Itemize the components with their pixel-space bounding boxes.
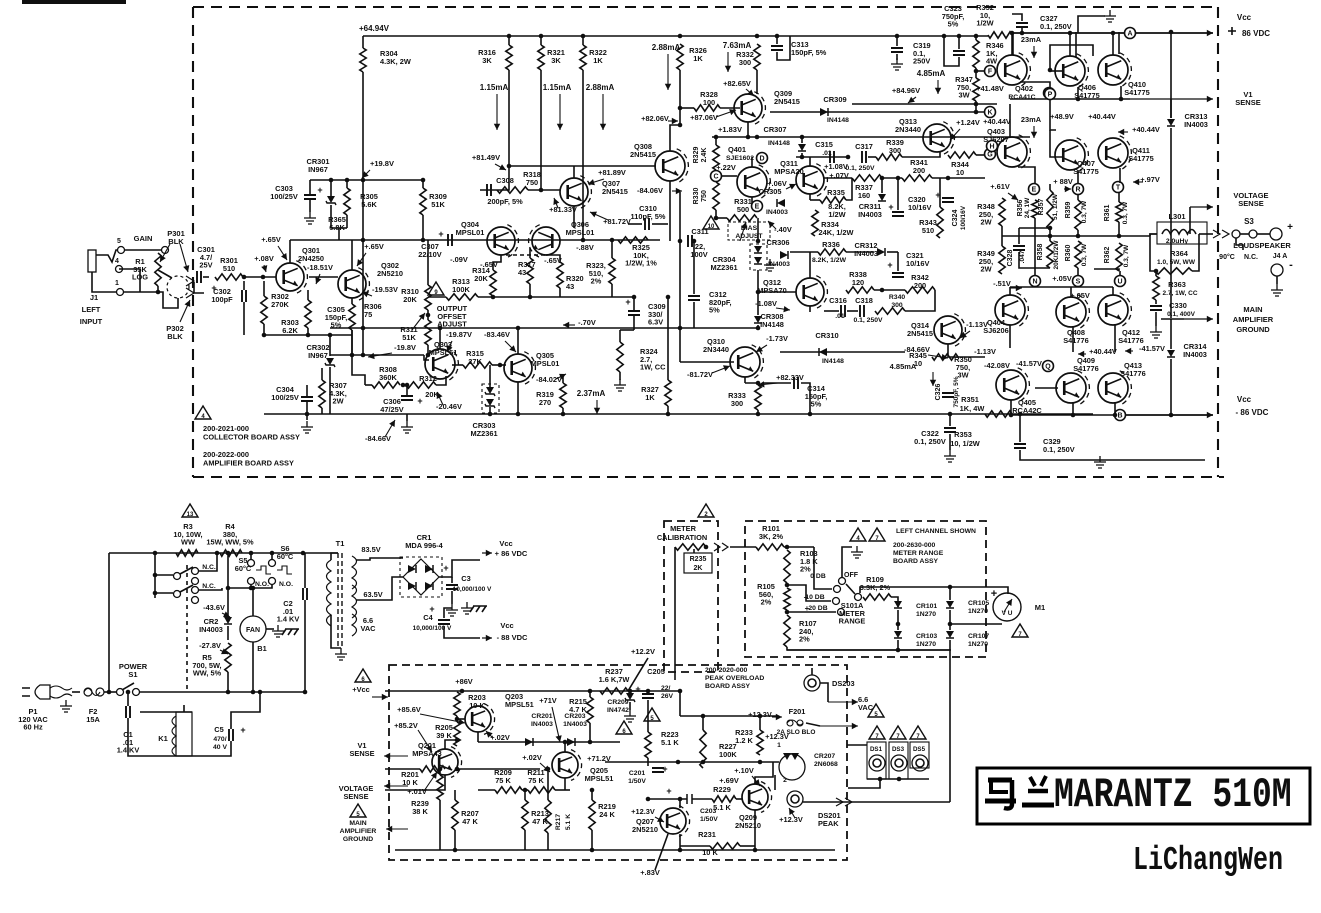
- wire R303 bottom: [307, 328, 309, 335]
- terminal gain: [162, 247, 169, 254]
- inductor L301 box: [1157, 222, 1207, 244]
- junction: [948, 585, 953, 590]
- svg-text:0.3, 7W: 0.3, 7W: [1081, 200, 1088, 223]
- wire CR302 down: [329, 367, 331, 414]
- warning triangle 2: [698, 504, 714, 517]
- arrow v Q309b: [716, 110, 736, 117]
- svg-text:60°C: 60°C: [277, 552, 294, 561]
- wire: [874, 289, 905, 291]
- capacitor C316: [841, 305, 845, 317]
- junction: [226, 690, 231, 695]
- junction: [226, 586, 231, 591]
- svg-text:2N3440: 2N3440: [895, 125, 921, 134]
- svg-text:0.3, 7W: 0.3, 7W: [1122, 201, 1129, 224]
- transistor Q403: [997, 137, 1027, 167]
- wire C304 bottom: [306, 401, 308, 420]
- resistor R363: [1153, 276, 1159, 300]
- label title CJK Lan: [1022, 776, 1054, 805]
- svg-text:C5: C5: [214, 725, 223, 734]
- connector P1 plug: [35, 685, 50, 699]
- wire under C301: [194, 282, 204, 293]
- wire: [154, 553, 156, 598]
- svg-text:N.O.: N.O.: [279, 581, 293, 588]
- svg-text:LiChangWen: LiChangWen: [1133, 841, 1283, 880]
- junction: [460, 689, 465, 694]
- wire CR2 bottom: [227, 626, 229, 640]
- junction: [306, 333, 311, 338]
- arrow pot wiper: [412, 313, 425, 330]
- svg-text:N.C.: N.C.: [202, 564, 216, 571]
- svg-text:SENSE: SENSE: [1238, 199, 1263, 208]
- junction: [846, 155, 851, 160]
- svg-text:38 K: 38 K: [412, 807, 428, 816]
- capacitor C314: [794, 377, 798, 389]
- transistor Q312: [796, 278, 824, 306]
- svg-text:+.05V: +.05V: [1070, 291, 1090, 300]
- svg-text:R358: R358: [1037, 244, 1044, 261]
- junction: [714, 216, 719, 221]
- wire: [1012, 32, 1014, 55]
- svg-text:S41775: S41775: [1124, 88, 1149, 97]
- junction: [539, 188, 544, 193]
- svg-text:IN967: IN967: [308, 165, 328, 174]
- wire R323 top: [611, 240, 613, 258]
- wire C309 top: [633, 297, 635, 311]
- arrow v Q205: [540, 763, 550, 772]
- wire: [506, 254, 547, 256]
- wire: [940, 111, 985, 113]
- wire: [509, 165, 656, 167]
- warning triangle 5: [868, 704, 884, 717]
- svg-text:C316: C316: [829, 296, 847, 305]
- resistor R217: [545, 800, 551, 833]
- svg-text:5.1 K: 5.1 K: [565, 814, 572, 830]
- wire: [674, 547, 676, 680]
- resistor R227: [700, 730, 706, 768]
- svg-text:4.7 K: 4.7 K: [569, 705, 587, 714]
- arrow v -.51V: [1010, 287, 1022, 289]
- svg-text:1/2W: 1/2W: [976, 19, 993, 28]
- arrow P301 a: [160, 244, 170, 262]
- junction: [361, 238, 366, 243]
- wire: [310, 179, 423, 181]
- arrow v y742: [486, 731, 492, 737]
- ground under C304: [301, 421, 313, 433]
- junction: [258, 690, 263, 695]
- wire R333 bottom: [757, 410, 759, 414]
- wire: [564, 778, 566, 790]
- svg-text:N: N: [1032, 279, 1037, 286]
- ground right bottom: [1094, 456, 1106, 468]
- svg-text:1K: 1K: [645, 393, 655, 402]
- wire: [271, 553, 273, 559]
- wire R315 to Q305: [492, 364, 506, 366]
- svg-text:C326: C326: [935, 384, 942, 401]
- svg-text:R361: R361: [1104, 205, 1111, 222]
- wire R5 bottom: [227, 672, 229, 692]
- junction: [878, 777, 883, 782]
- wire R330 top stub: [715, 181, 717, 182]
- junction: [251, 690, 256, 695]
- svg-text:100/16V: 100/16V: [960, 205, 967, 230]
- transistor Q409: [1056, 373, 1086, 403]
- diode CR201: [525, 738, 533, 746]
- wire C312 bottom: [693, 302, 695, 328]
- arrow P302: [180, 300, 190, 322]
- transistor Q303: [425, 349, 455, 379]
- junction: [957, 34, 962, 39]
- wire: [679, 799, 681, 808]
- wire R343 top: [939, 178, 941, 207]
- junction: [946, 176, 951, 181]
- resistor R322: [580, 45, 586, 70]
- arrow v -20.46V: [437, 392, 443, 405]
- svg-text:1K, 4W: 1K, 4W: [960, 404, 985, 413]
- resistor R4: [220, 550, 242, 556]
- junction: [329, 178, 334, 183]
- junction: [546, 767, 551, 772]
- wire C302 to gnd rail: [243, 302, 245, 335]
- terminal 0DB: [834, 586, 841, 593]
- wire C301 to R301: [203, 276, 209, 278]
- resistor R352: [988, 32, 1012, 38]
- wire: [1010, 400, 1012, 415]
- arrow v Q310: [756, 345, 767, 352]
- wire: [680, 107, 694, 109]
- svg-text:S41776: S41776: [1120, 369, 1145, 378]
- svg-text:120: 120: [852, 278, 864, 287]
- junction: [523, 788, 528, 793]
- wire R326 down: [679, 70, 681, 125]
- arrow v Q309: [746, 89, 754, 96]
- wire: [395, 849, 835, 851]
- wire C319 top: [896, 36, 898, 46]
- svg-text:20K: 20K: [403, 295, 417, 304]
- resistor R307: [319, 380, 325, 408]
- lamp DS1 box: [867, 742, 886, 779]
- wire: [787, 585, 831, 601]
- capacitor C313: [771, 46, 783, 50]
- svg-text:+ 86 VDC: + 86 VDC: [495, 549, 528, 558]
- svg-text:10,000/100 V: 10,000/100 V: [453, 586, 492, 593]
- svg-text:B1: B1: [257, 644, 266, 653]
- wire: [356, 577, 403, 600]
- wire: [628, 658, 648, 691]
- node U: [1115, 276, 1126, 287]
- svg-text:1.2 K: 1.2 K: [735, 736, 753, 745]
- svg-text:+1.83V: +1.83V: [718, 125, 742, 134]
- chassis C3: [470, 606, 487, 612]
- svg-text:750pF, 5%: 750pF, 5%: [953, 376, 960, 407]
- wire C328 bottom: [1019, 252, 1050, 268]
- svg-text:+12.3V: +12.3V: [779, 815, 803, 824]
- wire: [950, 623, 1002, 625]
- svg-text:+81.72V: +81.72V: [603, 217, 631, 226]
- capacitor C302: [242, 290, 246, 302]
- resistor R235: [675, 544, 706, 550]
- transformer T1 primary: [327, 560, 332, 626]
- wire Q401 base: [721, 175, 737, 177]
- svg-text:24K, 1/2W: 24K, 1/2W: [819, 228, 854, 237]
- junction: [897, 777, 902, 782]
- wire CR307 top: [801, 137, 803, 143]
- svg-text:+.05V: +.05V: [1052, 274, 1072, 283]
- wire: [790, 251, 818, 253]
- chevrons meter cal out: [714, 543, 728, 551]
- connector J1: [88, 250, 96, 272]
- terminal S3 b: [1249, 230, 1257, 238]
- capacitor C322: [944, 428, 956, 432]
- svg-text:S41776: S41776: [1063, 336, 1088, 345]
- wire R306 bottom: [351, 330, 353, 355]
- wire: [1072, 403, 1074, 415]
- svg-text:6.2K: 6.2K: [282, 326, 298, 335]
- svg-text:R330: R330: [693, 188, 700, 205]
- wire: [1118, 32, 1120, 54]
- transistor Q309: [734, 94, 762, 122]
- diode CR305: [777, 199, 785, 207]
- junction: [666, 412, 671, 417]
- wire R308 to R306: [352, 330, 365, 385]
- ground CR306: [764, 259, 776, 271]
- terminal relay a3: [192, 578, 199, 585]
- svg-text:47 K: 47 K: [462, 817, 478, 826]
- svg-text:75: 75: [364, 310, 372, 319]
- svg-text:Q: Q: [1045, 364, 1051, 371]
- svg-text:86 VDC: 86 VDC: [1242, 29, 1270, 38]
- wire C327 top: [1012, 14, 1022, 21]
- arrow Vcc plus: [482, 552, 492, 554]
- capacitor C318: [860, 305, 864, 317]
- svg-text:200: 200: [914, 281, 926, 290]
- svg-text:MPSL01: MPSL01: [531, 359, 560, 368]
- svg-text:6.8K: 6.8K: [329, 223, 345, 232]
- svg-text:H: H: [989, 144, 994, 151]
- svg-text:+1.08V: +1.08V: [824, 162, 848, 171]
- svg-text:20K/1/2W: 20K/1/2W: [1053, 240, 1060, 270]
- resistor R231: [710, 843, 740, 849]
- resistor R201: [420, 766, 445, 772]
- diode CR101: [894, 601, 902, 608]
- wire Q303 collector: [439, 328, 441, 349]
- wire R217 bottom: [547, 833, 549, 850]
- junction: [561, 412, 566, 417]
- node G: [985, 149, 996, 160]
- wire: [155, 574, 173, 576]
- label title MARANTZ 510M: [1054, 773, 1292, 819]
- junction: [974, 34, 979, 39]
- svg-text:23mA: 23mA: [1021, 35, 1042, 44]
- wire R329-R330: [715, 170, 717, 172]
- ground top right: [1104, 10, 1116, 22]
- resistor R349: [999, 246, 1005, 274]
- svg-text:N.C.: N.C.: [1244, 254, 1258, 261]
- wire: [976, 154, 984, 156]
- wire CR2 top: [227, 600, 229, 616]
- diode CR105: [946, 601, 954, 608]
- resistor R317: [527, 258, 533, 284]
- svg-text:C201: C201: [629, 770, 645, 777]
- svg-text:1N270: 1N270: [968, 641, 988, 648]
- svg-text:150pF, 5%: 150pF, 5%: [791, 48, 827, 57]
- svg-text:CR107: CR107: [968, 633, 989, 640]
- wire to C314: [763, 382, 791, 384]
- capacitor C201: [652, 768, 664, 772]
- wire: [891, 597, 898, 607]
- terminal pin 4: [116, 266, 123, 273]
- ground CR209: [624, 710, 636, 722]
- junction: [1048, 226, 1053, 231]
- wire Q314 emitter: [948, 344, 958, 357]
- svg-text:4: 4: [115, 258, 119, 265]
- warning triangle 6: [355, 669, 371, 682]
- svg-text:39 K: 39 K: [436, 731, 452, 740]
- junction: [350, 353, 355, 358]
- wire: [109, 552, 338, 554]
- junction: [646, 797, 651, 802]
- svg-text:470/: 470/: [213, 736, 226, 743]
- svg-text:C: C: [713, 174, 718, 181]
- wire: [867, 778, 929, 780]
- wire: [770, 111, 940, 113]
- zener CR303 box: [482, 384, 499, 413]
- junction: [455, 717, 460, 722]
- svg-text:SENSE: SENSE: [1235, 98, 1260, 107]
- wire: [1240, 233, 1249, 235]
- ground C3: [446, 604, 458, 616]
- wire Q303 to R315: [452, 364, 463, 366]
- wire: [754, 810, 756, 850]
- wire: [1009, 104, 1011, 137]
- svg-text:300: 300: [731, 399, 743, 408]
- transistor Q302: [338, 270, 366, 298]
- label title CJK Ma: [985, 780, 1016, 809]
- wire: [1020, 82, 1050, 88]
- svg-text:23mA: 23mA: [1021, 115, 1042, 124]
- thermal S5: [256, 566, 271, 574]
- wire: [692, 798, 712, 800]
- resistor R103: [784, 550, 790, 583]
- svg-text:K: K: [987, 110, 992, 117]
- wire: [774, 775, 776, 790]
- arrow 23mA bottom: [1033, 126, 1035, 138]
- resistor R310: [425, 285, 431, 310]
- wire: [1199, 233, 1213, 235]
- label LiChangWen: [1133, 841, 1283, 880]
- wire: [824, 310, 839, 312]
- lamp DS3: [891, 755, 907, 771]
- junction: [800, 155, 805, 160]
- wire: [72, 691, 80, 693]
- terminal loudspeaker -: [1271, 264, 1283, 276]
- resistor R328: [694, 105, 720, 111]
- arrow v Q207: [655, 817, 664, 822]
- svg-text:R312: R312: [419, 374, 437, 383]
- svg-text:+82.33V: +82.33V: [776, 373, 804, 382]
- transistor Q402: [997, 55, 1027, 85]
- wire R233 top: [759, 716, 761, 730]
- junction: [628, 689, 633, 694]
- svg-text:24, 1W: 24, 1W: [1024, 197, 1031, 218]
- wire Q312 collector: [809, 252, 811, 278]
- resistor R347: [973, 78, 979, 101]
- resistor R305: [344, 188, 350, 215]
- wire R359 bottom: [1077, 230, 1079, 236]
- wire: [680, 413, 1093, 415]
- svg-text:+: +: [1287, 222, 1293, 233]
- svg-text:10,000/100 V: 10,000/100 V: [413, 625, 452, 632]
- svg-text:2N4250: 2N4250: [298, 254, 324, 263]
- wire C323 loop: [944, 36, 959, 66]
- warning triangle 10: [703, 216, 719, 229]
- junction: [948, 622, 953, 627]
- arrow: [496, 94, 498, 130]
- svg-text:1N270: 1N270: [968, 608, 988, 615]
- junction: [1018, 412, 1023, 417]
- svg-text:R336: R336: [822, 240, 840, 249]
- ground T1: [335, 648, 347, 660]
- svg-text:F201: F201: [789, 707, 806, 716]
- wire plug tails: [50, 686, 72, 698]
- wire R361 bottom: [1118, 222, 1120, 236]
- resistor R342: [905, 287, 935, 293]
- svg-text:.01: .01: [822, 150, 832, 157]
- svg-text:+.08V: +.08V: [254, 254, 274, 263]
- svg-text:2: 2: [783, 777, 787, 784]
- wire CR105 bottom: [949, 610, 951, 630]
- svg-text:2%: 2%: [591, 277, 602, 286]
- wire R346-R347: [975, 68, 977, 78]
- arrow v Q303: [447, 341, 452, 352]
- wire relay blade a: [180, 567, 193, 574]
- svg-text:+85.2V: +85.2V: [394, 721, 418, 730]
- svg-text:-1.13V: -1.13V: [974, 347, 996, 356]
- svg-text:R231: R231: [698, 830, 716, 839]
- svg-text:METER: METER: [670, 524, 697, 533]
- svg-text:+40.44V: +40.44V: [1088, 112, 1116, 121]
- svg-text:10: 10: [956, 168, 964, 177]
- wire: [478, 296, 576, 298]
- arrow v +40.44V2: [1078, 353, 1086, 355]
- arrow: [667, 54, 669, 90]
- junction: [498, 363, 503, 368]
- svg-text:IN4148: IN4148: [760, 320, 784, 329]
- svg-text:2N5210: 2N5210: [632, 825, 658, 834]
- wire: [1050, 130, 1063, 157]
- arrow v Q312: [776, 308, 790, 310]
- wire: [199, 553, 217, 571]
- junction: [1048, 234, 1053, 239]
- terminal relay b3: [192, 597, 199, 604]
- terminal S5 top: [248, 560, 255, 567]
- junction: [426, 313, 431, 318]
- wire: [362, 180, 364, 355]
- junction: [678, 34, 683, 39]
- svg-text:-19.8V: -19.8V: [394, 343, 416, 352]
- svg-text:2N5415: 2N5415: [907, 329, 933, 338]
- junction: [438, 767, 443, 772]
- svg-text:C205: C205: [647, 667, 665, 676]
- junction: [646, 689, 651, 694]
- junction: [421, 178, 426, 183]
- wire CR308 top: [757, 300, 759, 315]
- wire Q301 base down: [263, 281, 265, 296]
- resistor R303: [305, 300, 311, 328]
- transistor Q308: [655, 151, 685, 181]
- svg-text:3W: 3W: [958, 91, 969, 100]
- svg-text:+.10V: +.10V: [734, 766, 754, 775]
- resistor R362: [1116, 243, 1122, 271]
